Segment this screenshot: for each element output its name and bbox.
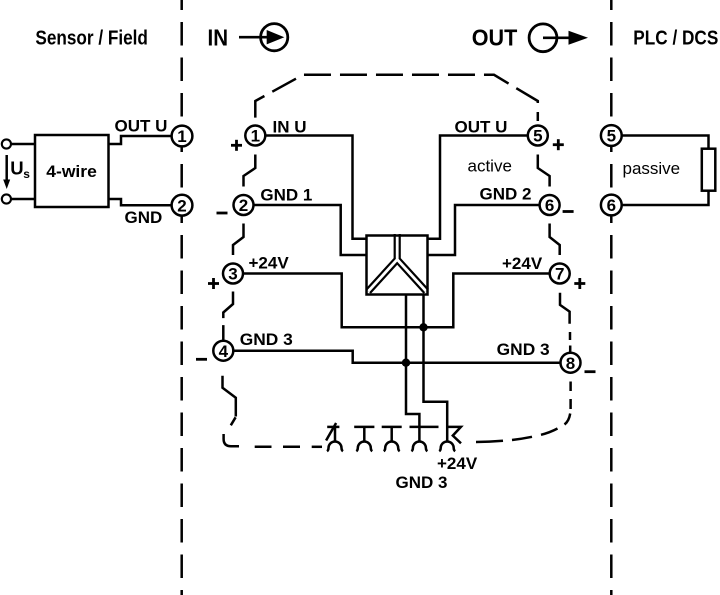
field terminal 1: [172, 126, 193, 147]
junction dot +24V: [419, 323, 427, 331]
wire PLC t5 to load resistor: [622, 136, 709, 149]
device outline hook t2-t3: [233, 224, 244, 256]
sensor supply terminal circle (bottom): [2, 194, 11, 203]
device terminal 6: [540, 195, 560, 215]
svg-text:OUT: OUT: [472, 25, 518, 51]
svg-text:7: 7: [555, 265, 564, 284]
wire GND 1 (t2 to isolator): [254, 205, 367, 255]
device terminal 1: [245, 126, 265, 146]
device outline hook t3-t4: [223, 292, 233, 342]
svg-text:active: active: [468, 157, 512, 176]
device terminal 4: [213, 341, 233, 361]
svg-text:passive: passive: [623, 159, 681, 178]
device outline hook t5-t6: [538, 155, 550, 187]
svg-text:U: U: [10, 157, 23, 178]
wire 4-wire box to field terminal 1: [109, 136, 172, 144]
svg-text:5: 5: [607, 127, 616, 146]
polarity - at t6: [563, 210, 574, 213]
device dashed outline: top edge with chamfers: [255, 75, 538, 121]
wire isolator to GND3 rail clamp (left drop): [406, 295, 419, 442]
wire OUT U (t5 to isolator): [428, 136, 528, 239]
dashed separator line (PLC/DCS zone): [610, 0, 613, 595]
svg-text:GND 3: GND 3: [396, 473, 448, 492]
polarity + at t3: [208, 278, 219, 289]
rail clamp 4 (GND 3): [410, 427, 439, 451]
wire GND 2 (t6 to isolator): [428, 205, 540, 255]
svg-text:Sensor / Field: Sensor / Field: [35, 27, 147, 50]
device terminal 8: [561, 353, 581, 373]
polarity - at t2: [217, 212, 228, 215]
wire IN U (t1 to isolator): [266, 136, 367, 239]
svg-text:4-wire: 4-wire: [46, 162, 97, 181]
junction dot GND3: [402, 359, 410, 367]
svg-text:GND: GND: [125, 208, 163, 227]
device outline below t8 (bottom-right curve): [476, 382, 571, 443]
dashed separator line (Sensor/Field zone): [180, 0, 183, 595]
device terminal 2: [234, 195, 254, 215]
svg-text:5: 5: [533, 127, 542, 146]
wire load resistor to PLC t6: [622, 191, 709, 205]
svg-text:1: 1: [177, 127, 186, 146]
svg-text:PLC / DCS: PLC / DCS: [633, 26, 718, 49]
field terminal 2: [172, 195, 193, 216]
svg-text:+24V: +24V: [249, 254, 290, 273]
svg-text:GND 1: GND 1: [260, 186, 312, 205]
sensor supply terminal circle (top): [2, 139, 11, 148]
load resistor: [702, 149, 716, 191]
device outline hook t7-t8: [560, 293, 570, 353]
polarity + at t1: [231, 140, 242, 151]
OUT icon (circle with arrow out): [529, 24, 588, 52]
device outline hook below t4: [223, 376, 323, 447]
rail clamp 5 (+24V, with bridge zigzag): [439, 427, 461, 451]
4-wire transmitter box: [35, 135, 109, 207]
polarity - at t4: [196, 358, 207, 361]
wire supply top to 4-wire box: [11, 143, 35, 146]
Us arrow: [3, 155, 10, 189]
isolator U1 (amplifier box with isolation Y): [367, 234, 428, 295]
svg-text:s: s: [23, 167, 30, 181]
device terminal 3: [223, 264, 243, 284]
wire +24V right (t7 to junction): [424, 274, 550, 328]
device outline hook t1-t2: [244, 155, 256, 187]
PLC terminal 6: [601, 195, 622, 216]
IN icon (circle with arrow): [239, 24, 288, 51]
wire GND 3 (t4 to t8): [234, 351, 560, 363]
wire +24V left (t3 to junction): [244, 274, 424, 328]
svg-text:GND 3: GND 3: [497, 340, 550, 359]
svg-text:2: 2: [177, 196, 186, 215]
svg-text:2: 2: [239, 196, 248, 215]
svg-text:GND 3: GND 3: [240, 330, 293, 349]
device terminal 5: [528, 126, 548, 146]
rail clamp 2: [354, 427, 374, 451]
svg-text:+24V: +24V: [502, 254, 543, 273]
svg-text:8: 8: [566, 354, 575, 373]
rail clamp 3: [382, 427, 402, 451]
wire supply bottom to 4-wire box: [11, 198, 35, 201]
svg-text:OUT U: OUT U: [455, 118, 508, 137]
svg-text:4: 4: [219, 342, 229, 361]
polarity + at t5: [553, 139, 564, 150]
wire isolator to +24V rail clamp (right drop): [424, 295, 448, 442]
svg-text:IN U: IN U: [273, 118, 307, 137]
svg-text:3: 3: [228, 265, 237, 284]
svg-text:1: 1: [251, 127, 260, 146]
polarity + at t7: [574, 278, 585, 289]
svg-text:6: 6: [545, 196, 554, 215]
polarity - at t8: [585, 370, 596, 373]
svg-text:IN: IN: [208, 25, 229, 51]
svg-text:+24V: +24V: [437, 454, 478, 473]
svg-text:6: 6: [607, 196, 616, 215]
PLC terminal 5: [601, 125, 622, 146]
device terminal 7: [550, 264, 570, 284]
svg-text:OUT U: OUT U: [115, 117, 168, 136]
rail clamp 1 (with slash): [326, 423, 343, 451]
svg-text:GND 2: GND 2: [480, 185, 532, 204]
device outline hook t6-t7: [550, 224, 560, 256]
wire 4-wire box to field terminal 2: [109, 199, 172, 205]
